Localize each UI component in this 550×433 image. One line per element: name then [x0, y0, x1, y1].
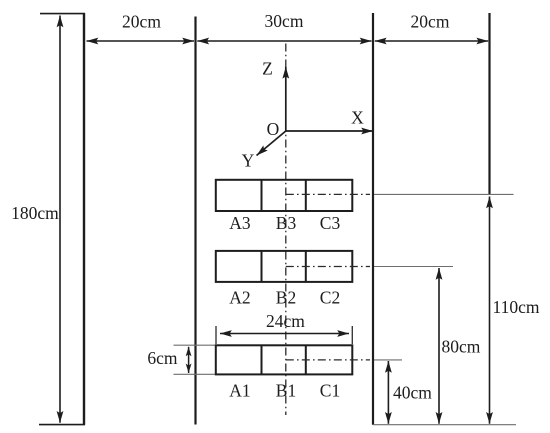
dimension 80cm arrow — [438, 268, 440, 424]
svg-text:C3: C3 — [320, 213, 341, 233]
svg-text:C2: C2 — [320, 288, 340, 308]
extension line 24cm left — [215, 326, 217, 344]
extension line 6cm top — [174, 344, 216, 346]
centerline row 2 dash-dot — [286, 266, 370, 268]
wall bottom tick — [39, 424, 85, 426]
label A1 — [229, 381, 250, 401]
svg-text:A3: A3 — [229, 213, 251, 233]
dimension 20cm left arrow — [87, 40, 195, 42]
label 80cm — [442, 337, 481, 357]
svg-text:30cm: 30cm — [265, 11, 304, 31]
dimension 30cm arrow — [197, 40, 371, 42]
svg-text:C1: C1 — [320, 381, 340, 401]
svg-text:Z: Z — [262, 59, 273, 79]
sensor row 1 rectangle — [216, 345, 352, 374]
dimension 110cm arrow — [489, 197, 491, 424]
svg-text:X: X — [351, 108, 364, 128]
svg-text:110cm: 110cm — [493, 297, 540, 317]
label X — [351, 108, 364, 128]
vertical line right of 30cm span — [372, 13, 374, 425]
label B3 — [276, 213, 297, 233]
svg-text:O: O — [267, 119, 280, 139]
svg-text:A2: A2 — [229, 288, 250, 308]
dimension 40cm arrow — [387, 361, 389, 424]
label C1 — [320, 381, 340, 401]
extension line row 2 right — [374, 266, 453, 268]
label 24cm — [266, 311, 305, 331]
axis Y — [257, 131, 286, 156]
svg-text:20cm: 20cm — [411, 12, 450, 32]
label 40cm — [393, 383, 432, 403]
svg-text:B2: B2 — [276, 288, 296, 308]
label B2 — [276, 288, 296, 308]
dimension 6cm arrow — [188, 347, 190, 373]
dimension 180cm arrow — [59, 16, 61, 423]
sensor row 3 rectangle — [216, 180, 352, 211]
svg-text:6cm: 6cm — [147, 348, 178, 368]
label 20cm right — [411, 12, 450, 32]
label Y — [242, 151, 255, 171]
extension line row 3 right — [374, 193, 514, 195]
label 30cm — [265, 11, 304, 31]
label C2 — [320, 288, 340, 308]
label A3 — [229, 213, 251, 233]
vertical dash-dot centerline — [285, 44, 287, 416]
label Z — [262, 59, 273, 79]
svg-text:A1: A1 — [229, 381, 250, 401]
label 110cm — [493, 297, 540, 317]
sensor row 2 rectangle — [216, 251, 352, 282]
label O origin — [267, 119, 280, 139]
wall left vertical — [83, 13, 85, 425]
vertical extension line right — [488, 13, 490, 194]
dimension 20cm right arrow — [375, 40, 488, 42]
label 180cm — [11, 203, 59, 223]
svg-text:20cm: 20cm — [122, 12, 161, 32]
svg-text:40cm: 40cm — [393, 383, 432, 403]
svg-text:B3: B3 — [276, 213, 297, 233]
svg-text:B1: B1 — [276, 381, 296, 401]
label C3 — [320, 213, 341, 233]
svg-text:24cm: 24cm — [266, 311, 305, 331]
label 6cm — [147, 348, 178, 368]
ground line bottom right — [373, 424, 516, 426]
axis Z — [285, 67, 287, 131]
label 20cm left — [122, 12, 161, 32]
dimension 24cm arrow — [220, 333, 349, 335]
svg-text:80cm: 80cm — [442, 337, 481, 357]
wall top tick — [40, 13, 85, 15]
centerline row 3 dash-dot — [286, 193, 370, 195]
centerline row 1 dash-dot — [286, 359, 370, 361]
extension line 24cm right — [351, 326, 353, 344]
extension line row 1 right — [374, 359, 402, 361]
label A2 — [229, 288, 250, 308]
svg-text:180cm: 180cm — [11, 203, 59, 223]
extension line 6cm bottom — [174, 373, 216, 375]
vertical line left of 30cm span — [194, 17, 196, 425]
label B1 — [276, 381, 296, 401]
svg-text:Y: Y — [242, 151, 255, 171]
axis X — [286, 130, 373, 132]
